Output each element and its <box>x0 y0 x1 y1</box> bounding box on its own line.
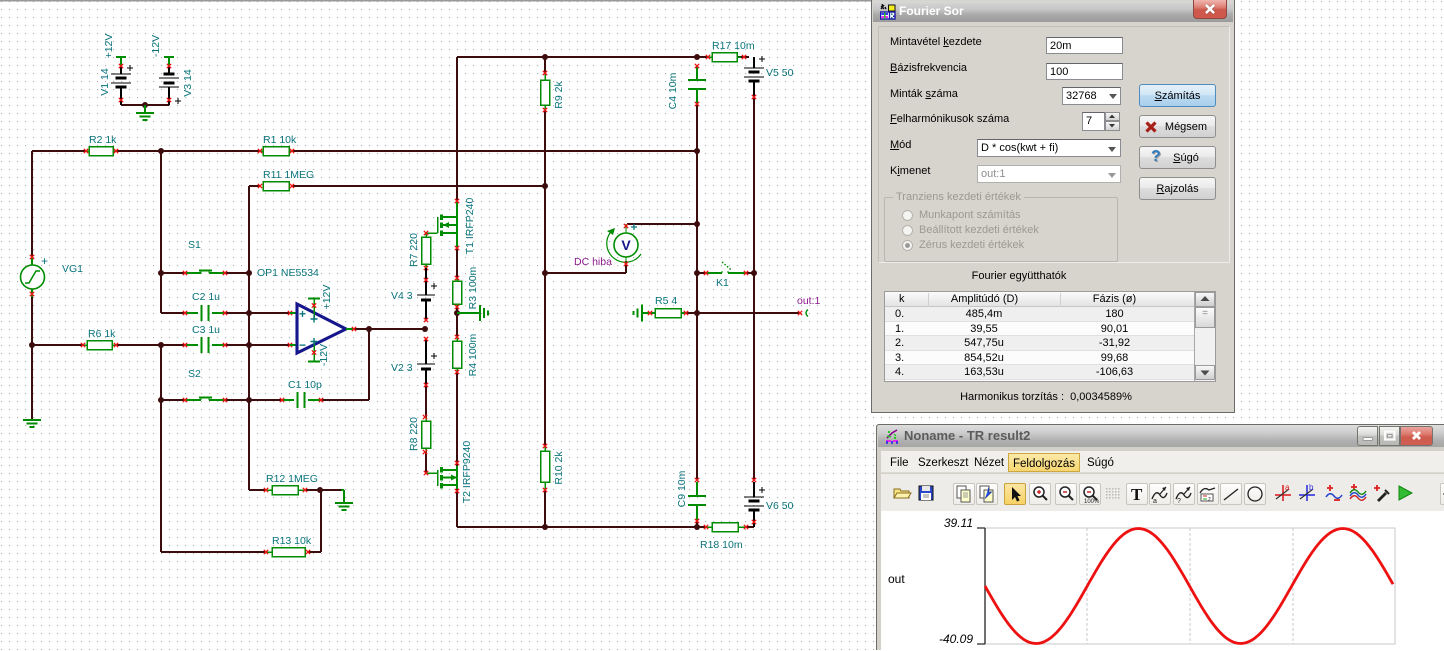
svg-text:R10 2k: R10 2k <box>553 451 565 485</box>
svg-text:+: + <box>41 254 48 268</box>
svg-text:T: T <box>1131 485 1143 504</box>
svg-text:R17 10m: R17 10m <box>712 40 755 52</box>
svg-text:−: − <box>299 338 306 352</box>
svg-text:+12V: +12V <box>321 285 333 310</box>
svg-text:R13 10k: R13 10k <box>272 535 312 547</box>
svg-text:R8 220: R8 220 <box>408 417 420 451</box>
svg-text:V: V <box>621 237 631 253</box>
svg-text:R12 1MEG: R12 1MEG <box>266 473 318 485</box>
svg-text:+12V: +12V <box>103 34 115 59</box>
svg-text:V6 50: V6 50 <box>766 500 794 512</box>
svg-text:DC hiba: DC hiba <box>574 256 612 268</box>
svg-text:C2 1u: C2 1u <box>192 291 220 303</box>
svg-text:T2 IRFP9240: T2 IRFP9240 <box>461 441 473 504</box>
svg-text:C4 10m: C4 10m <box>667 72 679 109</box>
svg-text:OP1 NE5534: OP1 NE5534 <box>257 267 319 279</box>
svg-text:a: a <box>1285 483 1290 492</box>
svg-text:S1: S1 <box>188 239 201 251</box>
svg-text:V1 14: V1 14 <box>99 68 111 96</box>
svg-text:?: ? <box>1177 498 1181 504</box>
svg-text:C3 1u: C3 1u <box>192 324 220 336</box>
svg-text:T1 IRFP240: T1 IRFP240 <box>464 198 476 255</box>
svg-text:K1: K1 <box>716 277 729 289</box>
svg-text:VG1: VG1 <box>62 263 83 275</box>
svg-text:R6 1k: R6 1k <box>88 328 116 340</box>
svg-text:100%: 100% <box>1084 499 1100 504</box>
svg-text:z: z <box>1208 497 1211 503</box>
svg-text:V4 3: V4 3 <box>391 290 413 302</box>
svg-text:R3 100m: R3 100m <box>467 266 479 309</box>
svg-text:R1 10k: R1 10k <box>263 134 297 146</box>
svg-text:b: b <box>1309 483 1314 492</box>
svg-text:V3 14: V3 14 <box>182 69 194 97</box>
svg-text:C9 10m: C9 10m <box>676 470 688 507</box>
svg-text:V5 50: V5 50 <box>766 67 794 79</box>
svg-text:a: a <box>1153 498 1157 504</box>
svg-text:R18 10m: R18 10m <box>700 539 743 551</box>
svg-text:C1 10p: C1 10p <box>288 379 322 391</box>
svg-text:R7 220: R7 220 <box>408 233 420 267</box>
svg-text:R2 1k: R2 1k <box>89 134 117 146</box>
svg-text:V2 3: V2 3 <box>391 362 413 374</box>
svg-text:R5 4: R5 4 <box>655 295 677 307</box>
svg-text:R9 2k: R9 2k <box>553 81 565 109</box>
svg-text:R4 100m: R4 100m <box>467 333 479 376</box>
svg-text:-12V: -12V <box>318 344 330 366</box>
svg-text:R11 1MEG: R11 1MEG <box>263 169 314 181</box>
svg-text:+: + <box>299 307 306 321</box>
svg-text:-12V: -12V <box>150 35 162 57</box>
svg-text:out:1: out:1 <box>797 295 821 307</box>
svg-text:S2: S2 <box>188 368 201 380</box>
